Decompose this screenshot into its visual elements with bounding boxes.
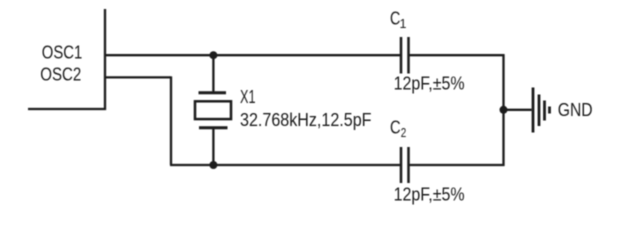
- svg-text:12pF,±5%: 12pF,±5%: [394, 185, 465, 205]
- wire crystal X1 bottom lead: [212, 128, 214, 165]
- IC outline (microcontroller body edge): [28, 9, 105, 109]
- svg-text:12pF,±5%: 12pF,±5%: [394, 73, 465, 93]
- wire OSC1 pin to C1: [105, 54, 401, 56]
- wire C2 to ground net: [409, 164, 505, 166]
- wire OSC2 pin horizontal: [105, 76, 171, 78]
- wire stub to ground symbol: [504, 109, 532, 111]
- svg-text:2: 2: [401, 126, 407, 140]
- svg-text:X1: X1: [240, 87, 256, 107]
- capacitor C2: [401, 147, 409, 183]
- ground: [533, 88, 550, 133]
- junction node ground net: [500, 106, 508, 114]
- crystal X1: [195, 93, 231, 128]
- wire C1 to ground net: [409, 54, 505, 56]
- svg-text:OSC2: OSC2: [40, 65, 81, 85]
- wire right vertical common net: [502, 54, 504, 166]
- capacitor C1: [401, 37, 409, 74]
- svg-text:1: 1: [400, 17, 407, 31]
- svg-text:C: C: [390, 118, 401, 138]
- junction node OSC2/X1/C2: [209, 161, 217, 169]
- svg-text:OSC1: OSC1: [42, 43, 83, 63]
- svg-text:32.768kHz,12.5pF: 32.768kHz,12.5pF: [240, 110, 372, 130]
- wire crystal X1 top lead: [212, 55, 214, 93]
- svg-text:GND: GND: [558, 100, 593, 120]
- wire bottom net to C2: [170, 164, 400, 166]
- junction node OSC1/X1/C1: [209, 51, 217, 59]
- wire OSC2 vertical drop: [170, 76, 172, 165]
